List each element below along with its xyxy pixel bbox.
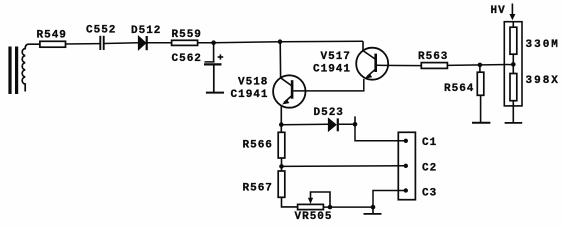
svg-text:R567: R567 [243,182,273,194]
svg-text:V518: V518 [238,77,268,89]
wire junction to C2 [282,165,406,168]
wire R559 to V517 collector corner [197,41,363,43]
resistor 390X [510,74,517,101]
wiper arm VR505 [308,192,330,207]
resistor R559 [172,40,198,45]
wire V518 collector [279,42,281,78]
svg-text:C1: C1 [422,137,437,149]
node junction dot D523 cathode [353,122,358,127]
wire R563 to HV divider [447,64,513,67]
wire junction to R564 [479,65,481,72]
resistor R564 [477,72,484,95]
wire between 330M and 390X [512,54,514,73]
pin C3 [404,188,408,192]
node junction dot R566/R567 [279,164,284,169]
svg-text:R549: R549 [37,29,67,41]
connector block C outline [398,132,415,199]
transformer winding L [22,44,40,91]
resistor 330M [510,27,517,54]
pin C2 [404,164,408,168]
wire emitter junction to D523 [281,123,328,126]
wire block top to 330M [512,22,514,28]
wire D512 to R559 [147,42,172,44]
potentiometer VR505 [298,204,324,209]
focus divider block outline [504,22,522,106]
node junction dot divider tap [511,62,516,67]
node junction dot R559/C562 [211,40,216,45]
svg-text:D512: D512 [131,25,161,37]
capacitor C552 [100,36,103,50]
diode D512 [138,36,146,50]
svg-text:R563: R563 [418,51,448,63]
resistor R563 [421,63,447,69]
node junction dot R563/R564 [478,63,483,68]
node junction dot V518 collector [278,39,283,44]
arrow HV input [509,4,515,21]
svg-text:398X: 398X [526,75,560,87]
node junction dot ground/C3 [371,205,376,210]
svg-text:C2: C2 [422,163,437,175]
svg-text:C552: C552 [86,25,116,37]
svg-text:V517: V517 [321,51,351,63]
wire D523 junction to C1 [355,124,406,141]
svg-text:330M: 330M [526,39,560,51]
ground below divider [505,122,523,124]
svg-text:C1941: C1941 [313,64,351,76]
svg-text:C3: C3 [422,188,437,200]
wire junction to C562 [213,43,215,62]
wire R564 to ground [480,95,482,122]
wire V518 emitter [280,106,282,133]
transformer T core bar right [15,47,18,95]
pin C1 [404,139,408,143]
transistor V518 [273,75,305,107]
transformer T core bar left [8,47,11,95]
wire V518 base to V517 emitter [293,79,363,91]
capacitor C562 polarized [204,62,222,65]
node junction dot V518 emitter [279,122,284,127]
wire D523 to junction [339,123,355,125]
ground below C562 [206,92,224,94]
wire junction to C3 [373,191,406,208]
wire V517 collector [362,41,364,50]
ground below VR505 [364,213,382,215]
svg-text:C1941: C1941 [231,89,269,101]
svg-text:R564: R564 [444,83,474,95]
wire stub above D523 junction [354,116,356,124]
wire top main [40,43,100,46]
svg-text:HV: HV [491,5,506,17]
resistor R566 [278,132,285,158]
wire V517 base to R563 [377,64,421,66]
diode D523 [328,118,338,131]
wire C562 to ground [213,64,215,92]
wire junction to ground [372,207,374,214]
svg-text:R559: R559 [172,29,202,41]
wire R567 to VR505 [282,197,298,207]
svg-text:D523: D523 [314,107,344,119]
ground below R564 [472,122,490,124]
transistor V517 [356,48,388,80]
resistor R567 [278,171,285,197]
wire 390X to ground [512,101,514,123]
svg-text:VR505: VR505 [295,211,333,223]
wire R566 to R567 [281,158,283,171]
plus sign C562 [218,54,224,59]
wire VR505 to ground junction [323,206,373,208]
node junction dot VR505 wiper [328,205,333,210]
resistor R549 [40,41,66,47]
svg-text:R566: R566 [243,140,273,152]
wire C552 to D512 [104,42,139,45]
svg-text:C562: C562 [172,53,202,65]
